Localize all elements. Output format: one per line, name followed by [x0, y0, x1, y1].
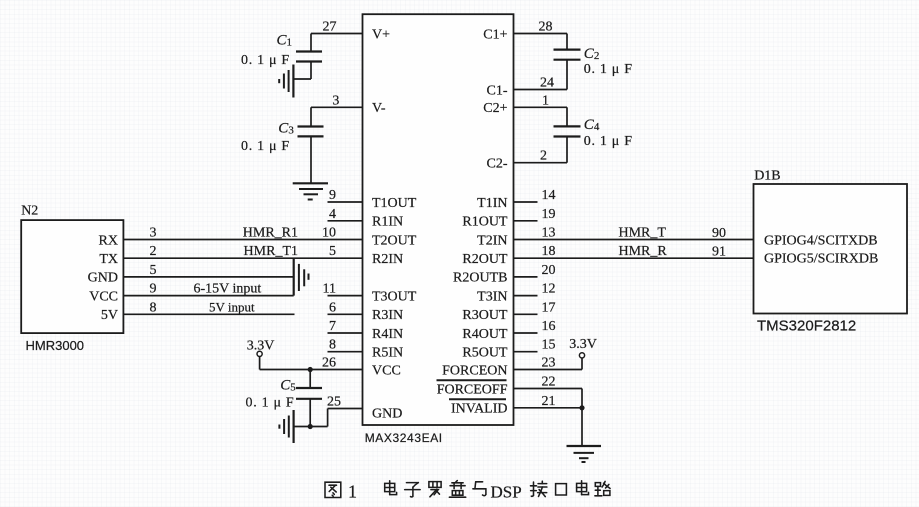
svg-text:16: 16 [542, 319, 556, 334]
svg-text:8: 8 [150, 300, 157, 315]
svg-text:FORCEON: FORCEON [442, 363, 507, 378]
svg-text:17: 17 [542, 300, 556, 315]
svg-text:C5: C5 [280, 378, 296, 394]
svg-text:R4OUT: R4OUT [462, 327, 508, 342]
svg-text:D1B: D1B [754, 169, 780, 184]
svg-text:14: 14 [542, 188, 556, 203]
svg-text:HMR_R1: HMR_R1 [243, 226, 298, 241]
svg-text:T2OUT: T2OUT [372, 233, 417, 248]
svg-text:5: 5 [150, 263, 157, 278]
svg-text:3.3V: 3.3V [247, 339, 275, 354]
svg-text:20: 20 [542, 263, 556, 278]
svg-text:V+: V+ [372, 27, 390, 42]
svg-text:C2-: C2- [487, 157, 508, 172]
svg-text:12: 12 [542, 282, 556, 297]
svg-text:N2: N2 [21, 204, 38, 219]
svg-text:91: 91 [712, 245, 726, 260]
svg-text:TMS320F2812: TMS320F2812 [757, 317, 856, 334]
svg-text:C1-: C1- [487, 83, 508, 98]
svg-text:C2: C2 [584, 46, 600, 62]
svg-text:2: 2 [150, 244, 157, 259]
svg-text:VCC: VCC [372, 363, 401, 378]
svg-text:5V: 5V [101, 308, 118, 323]
svg-text:R2OUT: R2OUT [462, 252, 508, 267]
svg-text:7: 7 [329, 319, 336, 334]
svg-text:15: 15 [542, 338, 556, 353]
svg-text:FORCEOFF: FORCEOFF [437, 382, 508, 397]
svg-text:HMR_R: HMR_R [619, 244, 668, 259]
svg-text:C1: C1 [277, 33, 293, 49]
svg-text:T1OUT: T1OUT [372, 196, 417, 211]
svg-text:4: 4 [329, 207, 336, 222]
svg-text:RX: RX [99, 233, 118, 248]
svg-text:T3IN: T3IN [477, 289, 507, 304]
svg-text:13: 13 [542, 226, 556, 241]
svg-text:C1+: C1+ [483, 27, 507, 42]
svg-text:22: 22 [542, 375, 556, 390]
svg-text:T1IN: T1IN [477, 196, 507, 211]
svg-text:1: 1 [542, 93, 549, 108]
svg-text:18: 18 [542, 244, 556, 259]
svg-text:R2OUTB: R2OUTB [453, 271, 507, 286]
svg-text:3: 3 [150, 226, 157, 241]
svg-text:R5IN: R5IN [372, 346, 403, 361]
svg-text:11: 11 [323, 282, 336, 297]
svg-text:0. 1 μ F: 0. 1 μ F [241, 53, 290, 68]
svg-text:9: 9 [329, 188, 336, 203]
svg-text:27: 27 [323, 20, 337, 35]
svg-text:9: 9 [150, 282, 157, 297]
svg-text:R4IN: R4IN [372, 327, 403, 342]
svg-text:HMR_T1: HMR_T1 [244, 244, 298, 259]
svg-text:GPIOG5/SCIRXDB: GPIOG5/SCIRXDB [764, 251, 878, 266]
svg-text:INVALID: INVALID [451, 402, 508, 417]
svg-text:0. 1 μ F: 0. 1 μ F [584, 134, 633, 149]
svg-text:GND: GND [88, 271, 118, 286]
svg-text:V-: V- [372, 101, 386, 116]
svg-text:C2+: C2+ [483, 101, 507, 116]
svg-text:1: 1 [348, 482, 357, 502]
svg-text:0. 1 μ F: 0. 1 μ F [584, 62, 633, 77]
svg-text:3: 3 [332, 93, 339, 108]
svg-text:25: 25 [327, 395, 341, 410]
svg-text:19: 19 [542, 207, 556, 222]
svg-text:5: 5 [329, 244, 336, 259]
svg-text:10: 10 [322, 226, 336, 241]
svg-text:6-15V input: 6-15V input [194, 282, 262, 297]
svg-text:DSP: DSP [491, 483, 522, 502]
svg-text:0. 1 μ F: 0. 1 μ F [241, 139, 290, 154]
svg-text:GPIOG4/SCITXDB: GPIOG4/SCITXDB [764, 234, 878, 249]
svg-text:23: 23 [542, 356, 556, 371]
svg-text:26: 26 [322, 356, 336, 371]
svg-text:HMR_T: HMR_T [619, 226, 667, 241]
svg-text:5V input: 5V input [209, 299, 255, 314]
svg-text:R2IN: R2IN [372, 252, 403, 267]
svg-text:R1OUT: R1OUT [462, 215, 508, 230]
svg-text:R3IN: R3IN [372, 308, 403, 323]
svg-text:GND: GND [372, 406, 402, 421]
svg-text:TX: TX [99, 252, 118, 267]
svg-text:R1IN: R1IN [372, 215, 403, 230]
svg-text:0. 1 μ F: 0. 1 μ F [246, 396, 295, 411]
svg-text:T3OUT: T3OUT [372, 289, 417, 304]
svg-text:C4: C4 [584, 117, 600, 133]
svg-text:24: 24 [540, 76, 554, 91]
svg-text:HMR3000: HMR3000 [26, 338, 85, 353]
svg-text:28: 28 [539, 20, 553, 35]
svg-text:21: 21 [542, 394, 556, 409]
svg-text:R5OUT: R5OUT [462, 346, 508, 361]
svg-text:R3OUT: R3OUT [462, 308, 508, 323]
svg-text:VCC: VCC [89, 289, 118, 304]
svg-text:C3: C3 [278, 120, 294, 136]
svg-text:MAX3243EAI: MAX3243EAI [365, 431, 443, 445]
svg-text:8: 8 [329, 338, 336, 353]
svg-text:6: 6 [329, 300, 336, 315]
svg-text:3.3V: 3.3V [569, 337, 597, 352]
svg-text:T2IN: T2IN [477, 233, 507, 248]
svg-text:90: 90 [712, 226, 726, 241]
svg-text:2: 2 [540, 149, 547, 164]
